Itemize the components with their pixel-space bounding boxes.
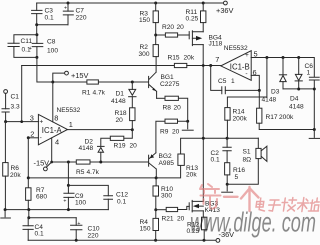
node C8/C11 top — [35, 33, 38, 36]
wire pin5 row — [251, 58, 314, 78]
capacitor C9 — [63, 185, 86, 209]
svg-text:R9: R9 — [160, 129, 169, 136]
resistor R18 — [115, 108, 136, 130]
wire rail to C4/C10 row — [28, 210, 30, 218]
resistor R13 — [178, 154, 199, 179]
diode D1 — [111, 82, 136, 108]
svg-text:NE5532: NE5532 — [224, 45, 248, 52]
svg-text:-: - — [40, 135, 42, 142]
svg-text:www.dilge. com: www.dilge. com — [190, 207, 316, 238]
resistor R6 — [3, 122, 22, 210]
svg-text:20k: 20k — [186, 172, 197, 179]
node D2 bottom — [99, 161, 102, 164]
node D4 bottom — [297, 88, 300, 91]
transistor BG3 K413 (JFET) — [189, 200, 220, 213]
svg-text:4.7k: 4.7k — [87, 169, 100, 176]
resistor R8 — [157, 96, 188, 121]
svg-text:4148: 4148 — [79, 145, 94, 152]
op-amp IC1-A NE5532 — [30, 107, 81, 147]
node BG4 source junction — [202, 64, 205, 67]
terminal input + capacitor C1 — [2, 90, 20, 122]
node R8/R9 junction — [186, 120, 189, 123]
svg-text:7: 7 — [215, 55, 219, 64]
diode D3 — [262, 58, 287, 104]
node output/C2/R14 — [226, 137, 229, 140]
svg-text:R1: R1 — [82, 90, 91, 97]
diode D2 — [79, 139, 105, 162]
svg-text:-15V: -15V — [34, 159, 50, 168]
wire servo left drop to pin3 — [21, 66, 23, 122]
resistor R17 — [257, 90, 315, 129]
svg-text:+: + — [64, 6, 67, 12]
svg-text:R8: R8 — [163, 105, 172, 112]
svg-text:20: 20 — [177, 24, 185, 31]
svg-text:20: 20 — [172, 129, 180, 136]
wire -15V row to R5 — [52, 161, 77, 163]
svg-text:3.3: 3.3 — [11, 103, 20, 110]
node pin2 — [27, 136, 30, 139]
capacitor C4 — [23, 218, 44, 240]
resistor R11 — [186, 3, 206, 23]
node C3 tie dot — [35, 23, 38, 26]
svg-text:100: 100 — [75, 200, 86, 207]
wire C9 branch down — [67, 162, 69, 185]
transistor BG1 C2275 (NPN) — [149, 57, 180, 99]
wire pin8 supply lead — [52, 82, 54, 122]
speaker S1 — [227, 138, 267, 184]
capacitor C10 — [71, 218, 100, 240]
svg-text:680: 680 — [36, 194, 47, 201]
svg-text:D3: D3 — [271, 89, 280, 96]
svg-text:5: 5 — [235, 174, 239, 181]
diode D4 — [289, 58, 304, 111]
resistor R3 — [139, 3, 158, 24]
wire output node row — [181, 138, 259, 154]
node R10/R21/R4 — [154, 208, 157, 211]
svg-text:4148: 4148 — [262, 97, 277, 104]
node R20 tap — [154, 34, 157, 37]
node pin7 junction — [209, 64, 212, 67]
wire pin2 down to feedback node — [27, 138, 29, 178]
svg-text:-: - — [245, 70, 247, 77]
svg-text:+: + — [39, 119, 43, 126]
wire D3/D4/C6 bottom tie — [283, 89, 314, 130]
resistor R2 — [139, 44, 159, 58]
resistor R14 — [225, 58, 267, 139]
node C9 branch — [67, 161, 70, 164]
svg-text:2: 2 — [30, 130, 34, 139]
wire +36V top rail — [37, 2, 224, 4]
node C8 bottom — [35, 56, 38, 59]
node C1 bottom — [4, 120, 7, 123]
node zobel/speaker return — [226, 183, 229, 186]
resistor R9 — [156, 119, 188, 153]
watermark red text dianzijishuzhan — [255, 198, 320, 212]
ground (right) — [309, 130, 319, 139]
wire feedback line (R7 to R13) — [28, 165, 180, 178]
capacitor C2 — [211, 138, 232, 164]
svg-text:C12: C12 — [116, 192, 128, 199]
wire C3/C7 bottom tie — [37, 24, 68, 26]
svg-text:1: 1 — [231, 78, 235, 85]
svg-text:C11: C11 — [21, 38, 33, 45]
svg-text:R20: R20 — [162, 24, 174, 31]
node pin5 dots — [265, 56, 300, 59]
terminal -36V — [216, 230, 234, 242]
svg-text:0.1: 0.1 — [45, 15, 54, 22]
node +15V tap — [51, 81, 54, 84]
capacitor C8 — [29, 35, 59, 58]
svg-text:C5: C5 — [218, 78, 227, 85]
capacitor C12 — [104, 192, 129, 210]
svg-text:0.25: 0.25 — [186, 15, 199, 22]
terminal +36V — [216, 1, 234, 15]
resistor R19 — [101, 130, 137, 150]
svg-text:R2: R2 — [140, 44, 149, 51]
svg-text:+: + — [77, 221, 80, 227]
transistor BG2 A985 (PNP) — [149, 153, 175, 178]
watermark red character yi — [224, 196, 238, 198]
capacitor C3 — [32, 3, 54, 25]
svg-text:R15: R15 — [168, 55, 180, 62]
svg-text:20k: 20k — [10, 172, 21, 179]
terminal -15V — [34, 159, 52, 171]
svg-text:0.1: 0.1 — [211, 157, 220, 164]
resistor R4 — [140, 210, 159, 241]
svg-text:300: 300 — [161, 192, 172, 199]
resistor R5 — [76, 160, 100, 176]
svg-text:C3: C3 — [45, 8, 54, 15]
svg-text:D1: D1 — [116, 91, 125, 98]
svg-text:150: 150 — [139, 17, 150, 24]
transistor BG4 J118 (JFET) — [189, 23, 222, 139]
svg-text:C8: C8 — [47, 39, 56, 46]
svg-text:R5: R5 — [76, 169, 85, 176]
resistor R20 — [156, 24, 190, 37]
node R7/feedback — [27, 176, 30, 179]
resistor R12 — [187, 211, 207, 240]
svg-text:20: 20 — [177, 216, 185, 223]
svg-text:20: 20 — [116, 117, 124, 124]
svg-text:C1: C1 — [11, 94, 20, 101]
svg-text:+: + — [29, 46, 32, 52]
capacitor C7 — [63, 3, 87, 25]
wire ground rail — [5, 209, 108, 211]
node C4 top — [27, 216, 30, 219]
svg-text:R19: R19 — [114, 143, 126, 150]
resistor R7 — [26, 178, 48, 210]
node C6 bottom — [313, 88, 316, 91]
svg-text:D4: D4 — [290, 96, 299, 103]
svg-text:+: + — [245, 52, 249, 59]
wire C8 node down to base line — [37, 57, 87, 82]
wire pin4 to -15V row — [51, 138, 53, 162]
svg-text:200k: 200k — [279, 114, 294, 121]
svg-text:4148: 4148 — [111, 98, 126, 105]
svg-text:IC1-A: IC1-A — [42, 126, 63, 135]
wire BG3 drain up to output node — [202, 138, 204, 201]
svg-text:R14: R14 — [233, 109, 245, 116]
svg-text:20k: 20k — [184, 55, 195, 62]
node output/BG3 — [202, 137, 205, 140]
svg-text:R16: R16 — [233, 167, 245, 174]
wire R15 to IC1-B output — [187, 65, 221, 67]
node pin4/-15V — [50, 161, 53, 164]
resistor R21 — [156, 206, 189, 222]
svg-text:200k: 200k — [233, 116, 248, 123]
svg-text:4.7k: 4.7k — [93, 90, 106, 97]
watermark red character di — [200, 184, 221, 209]
ground (main left) — [1, 210, 11, 218]
wire C4/C10 top tie — [29, 217, 76, 219]
svg-text:0.1: 0.1 — [117, 199, 126, 206]
svg-text:4: 4 — [55, 137, 59, 146]
svg-text:1: 1 — [307, 69, 311, 76]
svg-text:S1: S1 — [243, 149, 251, 156]
capacitor C6 — [305, 63, 320, 89]
wire input to pin3 — [6, 121, 39, 123]
node C9/C12 tie — [67, 184, 70, 187]
watermark red character ge — [241, 187, 259, 211]
wire pin2 stub — [28, 137, 38, 139]
svg-text:+: + — [63, 199, 66, 205]
svg-text:100: 100 — [47, 48, 58, 55]
ground (R8/R9 node) — [182, 121, 193, 130]
svg-text:8Ω: 8Ω — [243, 157, 252, 164]
svg-text:R21: R21 — [162, 216, 174, 223]
svg-text:220: 220 — [76, 15, 87, 22]
svg-text:20: 20 — [130, 143, 138, 150]
svg-text:0.1: 0.1 — [35, 231, 44, 238]
wire servo line (IC1-B out to IC1-A +in) — [22, 65, 175, 67]
resistor R16 — [225, 163, 246, 185]
wire bottom rail — [28, 239, 216, 241]
node bottom rail dots — [75, 239, 206, 242]
svg-text:R17: R17 — [266, 114, 278, 121]
node R17/ground — [313, 128, 316, 131]
svg-text:300: 300 — [139, 51, 150, 58]
svg-text:220: 220 — [88, 233, 99, 240]
svg-text:A985: A985 — [159, 160, 175, 167]
svg-text:NE5532: NE5532 — [57, 107, 81, 114]
svg-text:20: 20 — [174, 105, 182, 112]
svg-text:C7: C7 — [76, 8, 85, 15]
wire R5 to BG2 base — [90, 161, 148, 163]
wire IC1-A output — [68, 129, 133, 131]
capacitor C5 — [211, 66, 260, 94]
wire C9/C12 top tie — [68, 185, 108, 195]
node D1 tap — [131, 81, 134, 84]
node servo/pin3 — [20, 120, 23, 123]
resistor R1 — [82, 80, 106, 97]
resistor R15 — [168, 55, 195, 68]
ground (zobel) — [222, 184, 233, 192]
wire R1 to BG1 base — [98, 81, 148, 83]
node output/R18/R19 — [131, 128, 134, 131]
svg-text:J118: J118 — [209, 41, 223, 48]
resistor R10 — [153, 178, 173, 210]
svg-text:C2275: C2275 — [160, 81, 180, 88]
svg-text:4148: 4148 — [289, 104, 304, 111]
wire R3 to R2 — [155, 23, 157, 45]
svg-text:+15V: +15V — [71, 71, 89, 80]
svg-text:150: 150 — [140, 226, 151, 233]
wire down to C8/C11 — [36, 25, 38, 35]
svg-text:3: 3 — [30, 113, 34, 122]
node rail dots — [4, 208, 70, 211]
op-amp IC1-B NE5532 — [215, 45, 257, 80]
node BG2/R10 on feedback line — [155, 176, 158, 179]
wire pin6 stub — [251, 75, 259, 90]
terminal +15V — [53, 71, 89, 82]
node top rail junction dots — [67, 2, 205, 5]
svg-text:+36V: +36V — [216, 6, 234, 15]
capacitor C11 — [8, 35, 37, 58]
svg-text:1: 1 — [69, 120, 73, 129]
node C5/pin6/R17 — [258, 89, 261, 92]
svg-text:8: 8 — [54, 113, 58, 122]
